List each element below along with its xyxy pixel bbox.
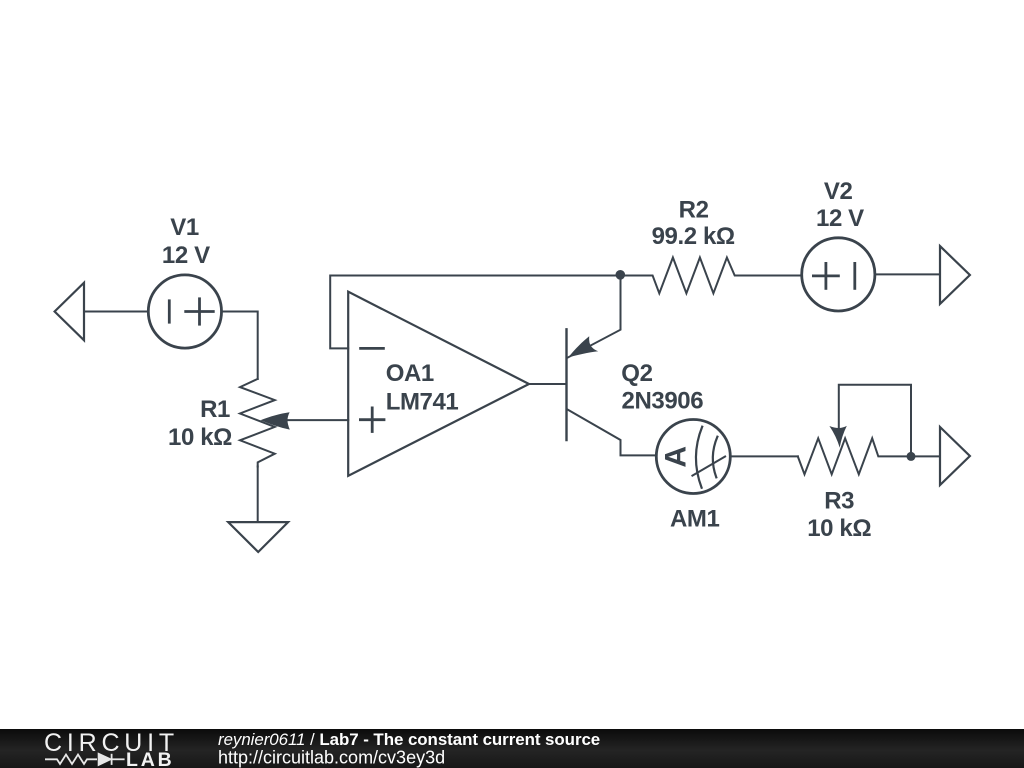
R1 wiper arrow (260, 412, 289, 429)
svg-text:AM1: AM1 (670, 505, 720, 532)
op-amp OA1 (348, 292, 529, 476)
wire (875, 273, 940, 275)
flag port right top (940, 246, 970, 304)
svg-text:R2: R2 (679, 197, 709, 224)
wire (emitter diagonal + up to rail) (568, 276, 621, 358)
node junction dot top (616, 270, 626, 280)
node junction dot right (907, 452, 916, 461)
svg-text:V1: V1 (170, 214, 199, 241)
Q2 emitter arrow (568, 336, 598, 357)
svg-text:R1: R1 (200, 396, 230, 423)
voltage source V2 (802, 238, 875, 311)
wire (222, 312, 258, 379)
wire (730, 455, 798, 457)
wire (R3 wiper loop) (839, 385, 911, 457)
svg-text:http://circuitlab.com/cv3ey3d: http://circuitlab.com/cv3ey3d (218, 748, 445, 768)
potentiometer R3 (798, 438, 911, 474)
potentiometer R1 (240, 379, 275, 467)
wire (257, 467, 259, 522)
R3 wiper arrow (829, 426, 846, 448)
svg-text:LAB: LAB (126, 749, 174, 768)
wire (wiper to op-amp +) (288, 419, 348, 421)
transistor Q2 (565, 329, 567, 440)
wire (feedback: minus input up and over) (330, 276, 620, 349)
ground (228, 522, 288, 552)
svg-text:LM741: LM741 (386, 389, 459, 416)
ammeter AM1 (656, 420, 730, 494)
voltage source V1 (148, 275, 221, 348)
svg-text:Q2: Q2 (621, 360, 652, 387)
svg-text:12 V: 12 V (816, 205, 864, 232)
svg-text:OA1: OA1 (386, 360, 434, 387)
logo resistor-diode squiggle (45, 754, 125, 765)
wire (op-amp output to base) (529, 383, 567, 385)
svg-text:2N3906: 2N3906 (622, 388, 704, 415)
svg-text:reynier0611 / Lab7 - The const: reynier0611 / Lab7 - The constant curren… (218, 730, 600, 749)
flag port left (55, 283, 84, 341)
wire (84, 311, 148, 313)
svg-text:99.2 kΩ: 99.2 kΩ (652, 223, 735, 250)
flag port right bottom (940, 427, 970, 485)
wire (collector diagonal down to ammeter) (568, 410, 657, 456)
svg-text:V2: V2 (824, 178, 853, 205)
svg-text:R3: R3 (824, 488, 854, 515)
svg-text:10 kΩ: 10 kΩ (807, 515, 871, 542)
resistor R2 (620, 258, 800, 294)
svg-text:12 V: 12 V (162, 242, 210, 269)
svg-text:A: A (660, 446, 693, 467)
wire (911, 455, 940, 457)
svg-text:10 kΩ: 10 kΩ (168, 424, 232, 451)
footer bar (0, 729, 1024, 768)
